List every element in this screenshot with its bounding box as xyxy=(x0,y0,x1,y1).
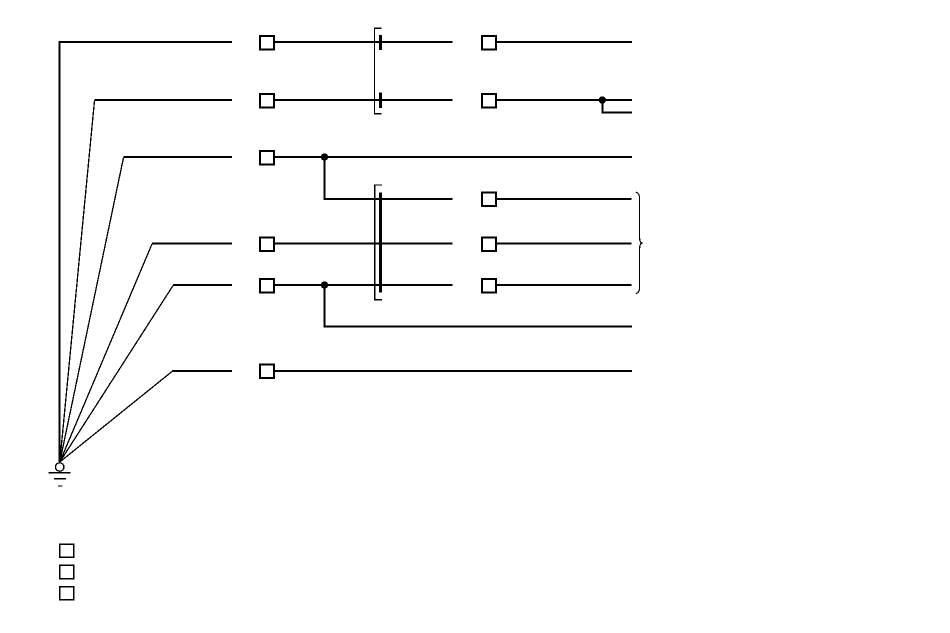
wire: row 2 centre segment through connector xyxy=(275,99,453,101)
terminal square legend 2 xyxy=(60,565,74,579)
wire: row 1 left segment xyxy=(59,41,233,43)
terminal square row 3, column 1 xyxy=(260,151,274,165)
wire: row 5 right segment xyxy=(497,284,632,286)
wire: diagonal lead row 6 to ground node xyxy=(60,372,172,463)
connector J2 shield bar contact xyxy=(379,192,382,292)
wire: diagonal lead row 4 to ground node xyxy=(60,244,152,462)
terminal square row 5, column 2 xyxy=(482,279,496,293)
ground symbol (earth) xyxy=(49,463,71,486)
terminal square row 2, column 1 xyxy=(260,94,274,108)
wire: diagonal lead row 5 to ground node xyxy=(60,286,173,462)
wire: row 4 left segment xyxy=(152,243,232,245)
wire: diagonal lead row 2 to ground node xyxy=(60,101,95,462)
terminal square row 1, column 1 xyxy=(260,36,274,50)
terminal square legend 3 xyxy=(60,587,74,600)
terminal square row 1, column 2 xyxy=(482,36,496,50)
wire: ground bus vertical segment xyxy=(59,41,61,462)
wire: diagonal lead row 3 to ground node xyxy=(60,158,124,462)
wire: shielded pair top right segment xyxy=(497,198,632,200)
terminal square shielded pair top, column 2 xyxy=(482,192,496,206)
wire: row 4 right segment xyxy=(497,243,632,245)
wire: row 1 centre segment through connector xyxy=(275,41,453,43)
wire: branch from row 3 down to shielded pair xyxy=(325,157,453,199)
junction dot row 2 right xyxy=(599,96,606,103)
connector J2 shield bracket xyxy=(375,185,382,301)
brace grouping cable bundle xyxy=(636,192,643,293)
junction dot row 5 xyxy=(321,281,328,288)
wire: branch from row 2 right down and right xyxy=(602,100,632,113)
wire: branch from row 5 down and right xyxy=(325,285,633,327)
wire: row 2 right segment xyxy=(497,99,632,101)
connector J1 shield bracket xyxy=(375,28,382,115)
wire: row 3 left segment xyxy=(124,156,233,158)
wire: row 1 right segment xyxy=(497,41,632,43)
wire: row 4 centre segment through connector xyxy=(275,243,453,245)
junction dot row 3 xyxy=(321,153,328,160)
connector J1 pin contact row 2 xyxy=(379,93,382,108)
terminal square row 6, column 1 xyxy=(260,364,274,378)
terminal square row 5, column 1 xyxy=(260,279,274,293)
wire: row 5 left segment xyxy=(173,284,232,286)
terminal square legend 1 xyxy=(60,544,74,557)
wire: row 3 long segment xyxy=(275,156,632,158)
wire: row 2 left segment xyxy=(95,99,233,101)
connector J1 pin contact row 1 xyxy=(379,35,382,50)
wire: row 6 left segment xyxy=(172,370,232,372)
terminal square row 4, column 2 xyxy=(482,237,496,251)
terminal square row 2, column 2 xyxy=(482,94,496,108)
wire: row 6 long segment xyxy=(275,370,632,372)
terminal square row 4, column 1 xyxy=(260,237,274,251)
wire: row 5 centre segment through connector xyxy=(275,284,453,286)
